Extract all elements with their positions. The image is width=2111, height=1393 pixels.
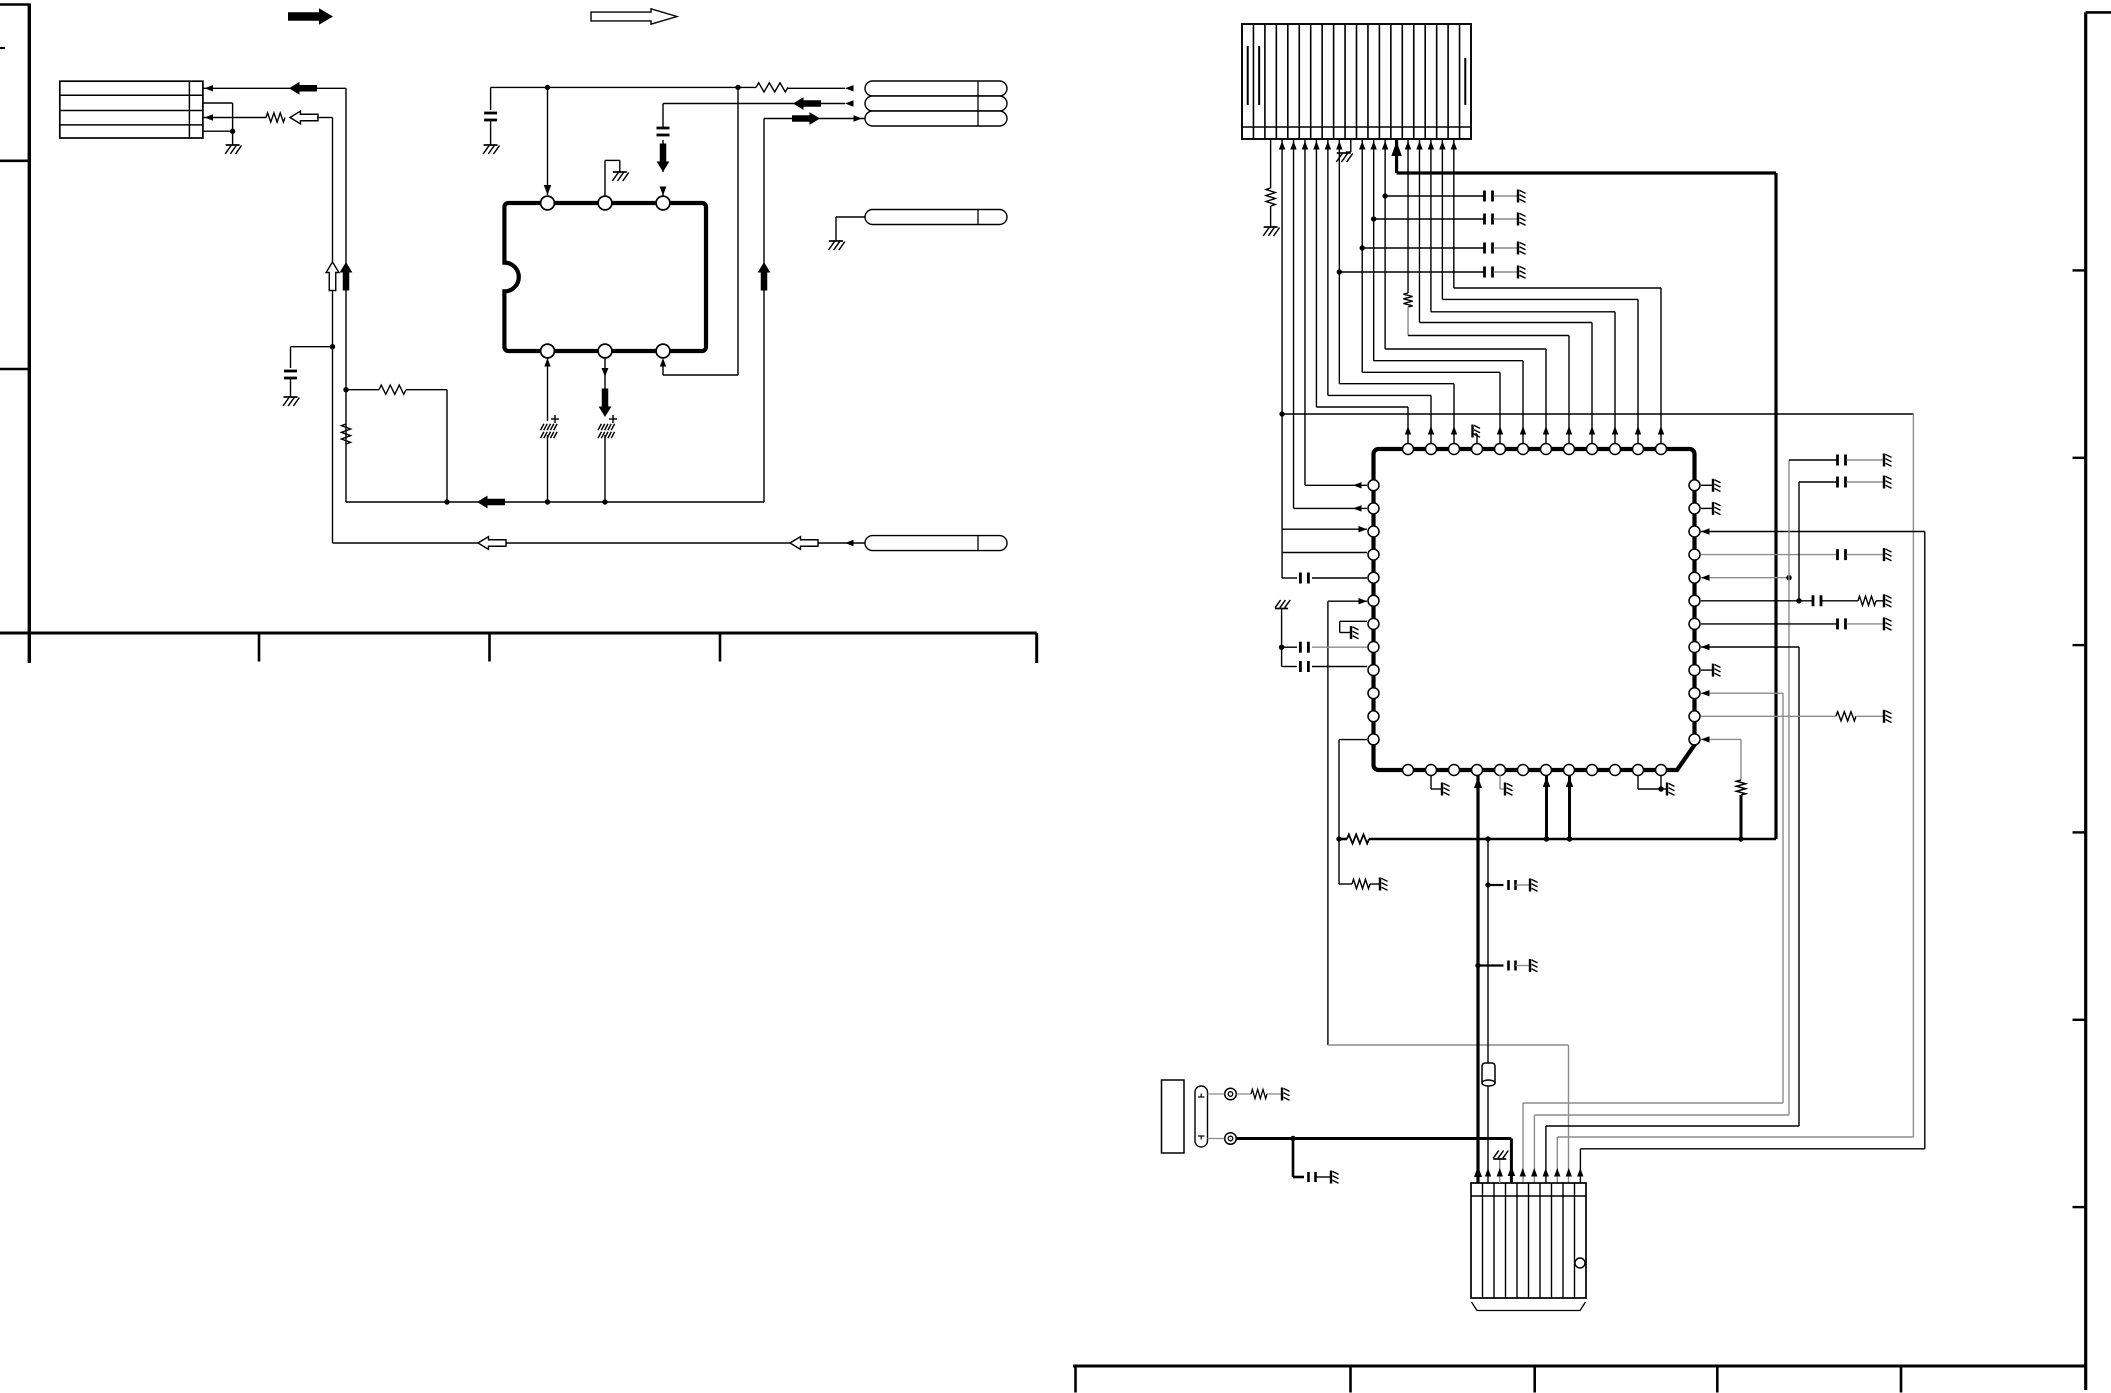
signal arrow (bold left) on bottom rail (477, 496, 505, 509)
wire C207 to U201 pin L8 (1312, 646, 1367, 648)
wire right loop from top rail to U101 pin6 (737, 87, 739, 375)
wire to capacitor C208 (1282, 666, 1297, 668)
IC U101 top pin 3 (656, 196, 670, 210)
IC U201 right pin 4 (1689, 549, 1700, 560)
ground (C214) (1529, 879, 1531, 892)
IC U201 bottom pin 8 (1564, 765, 1575, 776)
capacitor C205 (1483, 243, 1486, 254)
CN202 orientation circle (1575, 1258, 1585, 1268)
junction crystal net / C214 row (1485, 882, 1490, 887)
IC U201 top pin 5 (1495, 444, 1506, 455)
capacitor C202 (1299, 573, 1302, 584)
signal arrow (bold up) on net B (340, 262, 353, 291)
CN202 bottom bracket (1472, 1302, 1586, 1311)
wire C215 to ground (1516, 965, 1530, 967)
wire U201 pin R5 from grey column (1701, 577, 1789, 579)
wire CN101 pin4 to ground node (203, 130, 233, 132)
resistor R104 (on top rail) (756, 83, 788, 92)
wire C202 to U201 pin L5 (1312, 577, 1367, 579)
CN201 key mark cell 20 (1464, 58, 1466, 105)
wire U201 pin R10 to bottom connector pin5 (1701, 692, 1783, 694)
wire CN201 pin12 to U201 top pin T6 (1373, 139, 1375, 361)
wire J201 housing to terminal 2 (1208, 1138, 1225, 1140)
wire CN201 pin3 to R201 (1270, 139, 1272, 188)
wire terminal 1 to R208 (1237, 1093, 1252, 1095)
wire C104 to bottom rail (547, 435, 549, 502)
wire net A from R103 to vertical (317, 117, 333, 119)
wire C213 to ground (1847, 623, 1884, 625)
ground (P104) (829, 240, 843, 242)
ground (C213) (1883, 617, 1885, 630)
wire C204 to ground (1494, 218, 1518, 220)
wire P104 to ground (836, 216, 865, 218)
wire U201 pin L7 to ground (1340, 620, 1367, 622)
wire to capacitor C204 (1374, 218, 1484, 220)
wire R202 to U201 top pin T8 (1407, 307, 1409, 336)
legend: outline signal-flow arrow (591, 9, 677, 24)
ground (U201 R2) (1712, 502, 1714, 515)
resistor R102 (vertical on net B) (341, 424, 350, 444)
wire long link net D4 to right column (1282, 413, 1913, 415)
ground (C101) (284, 396, 298, 398)
IC U201 right pin 7 (1689, 618, 1700, 629)
IC U101 bottom pin 4 (541, 344, 555, 358)
wire C103 up and right to connector P102 (662, 104, 664, 129)
wire R207 to bottom rail (bold) (1740, 795, 1743, 839)
wire grey column (row A to bottom connector pin6) (1788, 460, 1790, 1115)
wire terminal 2 bold to bottom connector pin4 (1237, 1137, 1512, 1140)
wire CN201 pin4 down (net D4) (1281, 139, 1283, 578)
CN201 key mark cell 1 (1247, 46, 1249, 105)
resistor R206 (1836, 712, 1856, 721)
ground (C207 C208) (1275, 608, 1288, 610)
IC U201 left pin 2 (1368, 503, 1379, 514)
IC U201 bottom pin 1 (1403, 765, 1414, 776)
IC U201 top pin 11 (1633, 444, 1644, 455)
IC U201 left pin 5 (1368, 572, 1379, 583)
junction top rail at right loop (735, 85, 740, 90)
IC U201 right pin 5 (1689, 572, 1700, 583)
inline connector P103 (865, 111, 1007, 126)
wire to capacitor C207 (1282, 646, 1297, 648)
wire R204 branch (1339, 883, 1352, 885)
wire CN201 pin8 to U201 top pin T2 (1327, 139, 1329, 395)
IC U201 left pin 12 (1368, 734, 1379, 745)
capacitor C216 (1307, 1172, 1310, 1182)
signal arrow (bold left) toward C103 (793, 97, 821, 110)
IC U201 right pin 1 (1689, 480, 1700, 491)
IC U201 bottom pin 4 (1472, 765, 1483, 776)
page frame: right border with tick marks (2084, 12, 2087, 1390)
junction terminal-2 net / C216 branch (1290, 1136, 1295, 1141)
wire U101 pin2 to ground (604, 160, 606, 195)
ground (R205) (1883, 594, 1885, 607)
wire U201 pin R3 from bottom connector pin10 (1701, 531, 1925, 533)
IC U201 right pin 3 (1689, 526, 1700, 537)
signal arrow (outline left) on return line near P105 (790, 537, 818, 550)
arrow into CN202 pin7 (1543, 1168, 1549, 1177)
IC U201 top pin 9 (1587, 444, 1598, 455)
wire bottom rail right part (1369, 838, 1776, 841)
ground (R204) (1379, 878, 1381, 891)
capacitor C101 (284, 370, 297, 373)
signal arrow (bold right) toward P103 (792, 112, 820, 125)
wire CN201 pin18 to U201 top pin T11 (1441, 139, 1443, 299)
signal arrow (bold down) into U101 pin3 (657, 144, 670, 173)
ground (C204) (1517, 213, 1519, 226)
junction on net B (343, 387, 348, 392)
resistor R208 (1251, 1089, 1267, 1098)
ground (C210) (1883, 454, 1885, 467)
connector CN201 (20-pin) (1242, 24, 1471, 139)
resistor R203 (on bottom rail) (1347, 834, 1369, 843)
IC U201 bottom pin 10 (1610, 765, 1621, 776)
IC U201 right pin 2 (1689, 503, 1700, 514)
wire R104 to connector P101 (788, 87, 845, 89)
capacitor C215 (1507, 961, 1510, 971)
wire to capacitor C214 (1488, 884, 1504, 886)
capacitor C204 (1483, 214, 1486, 225)
IC U201 left pin 10 (1368, 688, 1379, 699)
wire C216 to ground (1316, 1176, 1331, 1178)
resistor R204 (1352, 879, 1370, 888)
IC U201 top pin 2 (1426, 444, 1437, 455)
IC U201 right pin 9 (1689, 665, 1700, 676)
wire CN201 pin16 to U201 top pin T9 (1418, 139, 1420, 323)
signal arrow (outline up) on net A (326, 262, 339, 291)
IC U101 bottom pin 5 (598, 344, 612, 358)
junction C207 node (1279, 645, 1284, 650)
J201 housing bottom mark (1198, 1135, 1205, 1137)
resistor R205 (1858, 596, 1876, 605)
connector J201 pin housing (1195, 1086, 1208, 1147)
wire CN201 pin7 to U201 top pin T1 (1315, 139, 1317, 407)
wire CN101 pin3 with resistor (203, 117, 266, 119)
ground (U201 T4) (1471, 425, 1473, 438)
signal arrow (outline left) on return line (478, 537, 506, 550)
arrow into CN202 pin2 (1485, 1168, 1491, 1177)
capacitor C209 (1836, 549, 1839, 560)
wire resistor R101 to rail (406, 389, 447, 391)
ground (CN201 pin10) (1337, 152, 1351, 154)
wire right column down to bottom connector pin8 (grey) (1912, 414, 1914, 1137)
IC U201 left pin 4 (1368, 549, 1379, 560)
legend: solid signal-flow arrow (288, 8, 333, 25)
capacitor C208 (1299, 661, 1302, 672)
wire bottom rail of left circuit (346, 501, 764, 503)
wire U201 pin R6 row with C212 and R205 (1701, 600, 1812, 602)
IC U201 right pin 12 (1689, 734, 1700, 745)
ground (U201 B2) (1441, 783, 1443, 796)
page frame: bottom rule of right sheet with tick marks (1073, 1365, 2086, 1368)
wire vertical net A down to lower line (332, 118, 334, 544)
ground (R206) (1883, 710, 1885, 723)
wire C206 to ground (1494, 271, 1518, 273)
capacitor C103 (657, 127, 670, 130)
wire to capacitor C206 (1339, 271, 1483, 273)
wire CN201 pin14 bold feed to bottom rail (1395, 139, 1398, 173)
arrow into CN202 pin6 (1531, 1168, 1537, 1177)
arrow into CN202 pin9 (1566, 1168, 1572, 1177)
wire C203 to ground (1494, 195, 1518, 197)
junction bottom rail / R branch (444, 499, 449, 504)
junction R6 row / row B column (1796, 598, 1801, 603)
wire C211 to ground (1847, 481, 1884, 483)
ground (U201 B11 B12) (1666, 783, 1668, 796)
wire U201 pin B2 to ground (1430, 775, 1432, 789)
IC U201 bottom pin 3 (1449, 765, 1460, 776)
ground (C206) (1517, 266, 1519, 279)
wire row A to capacitor C210 (1789, 459, 1837, 461)
ground (U201 B5) (1504, 783, 1506, 796)
capacitor C213 (1836, 618, 1839, 629)
wire top rail (VCC) of left circuit (491, 86, 756, 88)
resistor R202 (1403, 293, 1412, 307)
capacitor C207 (1299, 642, 1302, 653)
wire R204 to ground (1370, 883, 1379, 885)
ground (CN202 pin3) (1493, 1158, 1506, 1160)
wire CN201 pin5 to U201 pin L2 (1293, 139, 1295, 508)
IC U201 left pin 3 (1368, 526, 1379, 537)
wire CN201 pin11 to U201 top pin T5 (1361, 139, 1363, 372)
connector J201 shield plate (1162, 1080, 1185, 1153)
wire C105 to bottom rail (604, 435, 606, 502)
junction bottom rail / C104 (545, 499, 550, 504)
wire CN201 pin9 to U201 top pin T3 (net D9) (1338, 139, 1340, 384)
ground (C203) (1517, 190, 1519, 203)
IC U201 bottom pin 7 (1541, 765, 1552, 776)
wire net A capacitor branch (291, 346, 333, 348)
wire ground node down (232, 131, 234, 145)
wire to capacitor C215 (1478, 964, 1504, 966)
wire R201 to ground (1270, 206, 1272, 227)
wire CN201 pin13 to U201 top pin T7 (1384, 139, 1386, 349)
wire U201 pin R11 to R206 (1701, 715, 1836, 717)
IC U201 top pin 1 (1403, 444, 1414, 455)
junction bottom rail left end (1336, 836, 1341, 841)
IC U201 right pin 11 (1689, 711, 1700, 722)
wire U201 pin R4 to capacitor C209 (1701, 554, 1837, 556)
IC U101 bottom pin 6 (656, 344, 670, 358)
junction B8 / bottom rail (1567, 836, 1572, 841)
ground (U201 R9) (1712, 664, 1714, 677)
wire U201 pin B5 to ground (1499, 775, 1501, 789)
wire C210 to ground (1847, 459, 1884, 461)
IC U201 left pin 7 (1368, 618, 1379, 629)
wire C101 to ground (290, 378, 292, 397)
wire row B column down to R6 row (1798, 482, 1800, 601)
wire U201 pin R9 to ground (1701, 669, 1712, 671)
wire U201 pin L6 to bottom connector pin9 (long grey route) (1328, 600, 1367, 602)
IC U201 top pin 7 (1541, 444, 1552, 455)
resistor R101 (379, 385, 406, 394)
wire CN201 pin17 to U201 top pin T10 (1430, 139, 1432, 312)
junction net D4 / long link (1279, 411, 1284, 416)
wire vertical net B from CN101 pin1 down to bottom rail (345, 88, 347, 502)
electrolytic capacitor C105 with + mark (598, 424, 601, 430)
wire U201 pin B4 bold to bottom connector pin1 (1476, 775, 1479, 1183)
IC U201 right pin 6 (1689, 595, 1700, 606)
wire U201 pins B11+B12 to ground (1637, 775, 1639, 789)
junction B7 / bottom rail (1544, 836, 1549, 841)
arrow into CN202 pin10 (1577, 1168, 1583, 1177)
IC U201 bottom pin 12 (1656, 765, 1667, 776)
junction on net A (330, 344, 335, 349)
wire net B resistor branch (346, 389, 379, 391)
capacitor C203 (1483, 191, 1486, 202)
wire U101 pin3 net up to capacitor (662, 188, 664, 196)
wire U201 pin R12 via R207 to bottom rail (1701, 738, 1741, 740)
IC U201 bottom pin 11 (1633, 765, 1644, 776)
IC U201 top pin 12 (1656, 444, 1667, 455)
wire U201 pin B8 to bottom rail (1568, 775, 1571, 839)
wire crystal net from bottom rail (1487, 839, 1489, 1063)
electrolytic capacitor C104 with + mark (541, 424, 544, 430)
wire bottom rail (net VREF) (1339, 838, 1347, 841)
signal arrow (bold left) on CN101 pin1 wire (289, 82, 317, 95)
wire C212 to R205 (1822, 600, 1858, 602)
capacitor C206 (1483, 267, 1486, 278)
IC U201 bottom pin 6 (1518, 765, 1529, 776)
wire CN201 pin15 upper lead (1407, 139, 1409, 293)
wire R208 to ground (1267, 1093, 1281, 1095)
wire ground to C207/C208 node (1281, 609, 1283, 667)
wire net D4 into U201 pin L3 (1282, 528, 1367, 530)
IC U201 bottom pin 9 (1587, 765, 1598, 776)
signal arrow (bold up) on P103 riser (758, 262, 771, 291)
wire CN202 pin3 to ground (1499, 1168, 1501, 1183)
IC U201 bottom pin 2 (1426, 765, 1437, 776)
junction bottom rail / C105 (602, 499, 607, 504)
wire to capacitor C205 (1362, 247, 1483, 249)
ground (CN101) (226, 144, 240, 146)
signal arrow (outline left) on CN101 pin3 wire (290, 111, 318, 124)
junction net D9 / C206 row (1337, 269, 1342, 274)
IC U201 right pin 8 (1689, 642, 1700, 653)
IC U101 top pin 2 (598, 196, 612, 210)
jack terminal J201-1 (1225, 1088, 1237, 1100)
inline connector P101 (865, 81, 1007, 96)
junction B4 net / C215 row (1475, 963, 1480, 968)
wire CN101 pin2 to ground node (203, 102, 233, 104)
IC U201 right pin 10 (1689, 688, 1700, 699)
ground (U201 L7) (1350, 626, 1352, 639)
IC U201 top pin 4 (1472, 444, 1483, 455)
ground (U101 pin2) (613, 171, 627, 173)
wire U101 pin5 down (604, 358, 606, 390)
inline connector P102 (865, 96, 1007, 111)
IC U201 left pin 9 (1368, 665, 1379, 676)
wire U201 pin R7 to capacitor C213 (1701, 623, 1837, 625)
CN201 key mark cell 2 (1258, 46, 1260, 105)
page frame: bottom rule of left sheet with tick marks (0, 632, 1037, 635)
junction CN201 pin13 / C203 row (1382, 193, 1387, 198)
wire U201 pin R8 to bottom connector pin7 (1701, 646, 1799, 648)
capacitor C211 (1836, 477, 1839, 488)
arrow into CN202 pin1 (1474, 1166, 1482, 1177)
IC U101 top pin 1 (541, 196, 555, 210)
wire C205 to ground (1494, 247, 1518, 249)
page frame: left border with tick marks (28, 4, 31, 664)
wire CN101 pin1 to node (bold arrow) (203, 87, 346, 89)
arrow into CN202 pin8 (1554, 1168, 1560, 1177)
crystal X201 (1482, 1063, 1495, 1083)
wire net D4 into U201 pin L4 (1282, 552, 1367, 554)
inline connector P105 (865, 536, 1007, 551)
wire C214 to ground (1516, 884, 1530, 886)
IC U201 top pin 8 (1564, 444, 1575, 455)
ground (C209) (1883, 548, 1885, 561)
wire R206 to ground (1856, 715, 1883, 717)
junction CN201 pin12 / C204 row (1371, 216, 1376, 221)
jack terminal J201-2 (1225, 1133, 1237, 1145)
IC U201 top pin 6 (1518, 444, 1529, 455)
capacitor C212 (1812, 595, 1815, 606)
wire C209 to ground (1847, 554, 1884, 556)
J201 housing top mark (1198, 1096, 1205, 1098)
wire lower return line to connector P105 (333, 542, 866, 544)
wire crystal to bottom connector pin2 (1487, 1086, 1489, 1183)
junction top rail at IC101 pin 1 (545, 85, 550, 90)
IC U201 top pin 10 (1610, 444, 1621, 455)
arrow into CN202 pin5 (1520, 1168, 1526, 1177)
ground (R201) (1264, 226, 1278, 228)
ground (C205) (1517, 242, 1519, 255)
ground (C102) (484, 144, 498, 146)
IC U201 left pin 6 (1368, 595, 1379, 606)
wire J201 housing to terminal 1 (1208, 1093, 1225, 1095)
IC U201 left pin 1 (1368, 480, 1379, 491)
resistor R201 (1266, 188, 1275, 206)
wire net D4 capacitor C202 to U201 pin L5 (1282, 577, 1297, 579)
junction B11/B12 ground node (1658, 786, 1663, 791)
wire C102 to ground (490, 120, 492, 145)
wire U201 pin L12 to bottom rail corner (1339, 739, 1367, 741)
capacitor C210 (1836, 455, 1839, 466)
wire U201 pin R1 to ground (1701, 484, 1712, 486)
wire U201 pin R2 to ground (1701, 507, 1712, 509)
signal arrow (bold down) on U101 pin5 wire (599, 389, 612, 418)
wire CN201 pin19 to U201 top pin T12 (1453, 139, 1455, 288)
ground (C216) (1330, 1171, 1332, 1184)
junction R207 / bottom rail (1738, 836, 1743, 841)
connector CN101 (4-pin header) (60, 81, 203, 138)
wire to capacitor C203 (1385, 195, 1483, 197)
junction CN201 pin11 / C205 row (1360, 245, 1365, 250)
inline connector P104 (865, 210, 1007, 225)
wire C208 to U201 pin L9 (1312, 666, 1367, 668)
IC U201 left pin 11 (1368, 711, 1379, 722)
junction crystal net / bottom rail (1485, 836, 1490, 841)
IC U201 body (1374, 449, 1695, 770)
ground (C215) (1529, 959, 1531, 972)
IC U201 bottom pin 5 (1495, 765, 1506, 776)
ground (U201 R1) (1712, 479, 1714, 492)
resistor R103 (266, 113, 285, 122)
wire CN201 pin10 to ground (1350, 139, 1352, 152)
IC U201 left pin 8 (1368, 642, 1379, 653)
wire top rail into U101 pin1 (547, 87, 549, 195)
wire U201 top pin T4 to ground (1476, 434, 1478, 443)
wire R205 to ground (1876, 600, 1883, 602)
junction R5 / grey column (1786, 575, 1791, 580)
wire U201 pin B7 to bottom rail (1545, 775, 1548, 839)
IC U101 body (504, 203, 706, 351)
wire top rail left end down to capacitor (490, 87, 492, 110)
wire U101 pin4 to electrolytic C104 (547, 358, 549, 421)
capacitor C102 (484, 112, 497, 115)
ground (C211) (1883, 476, 1885, 489)
